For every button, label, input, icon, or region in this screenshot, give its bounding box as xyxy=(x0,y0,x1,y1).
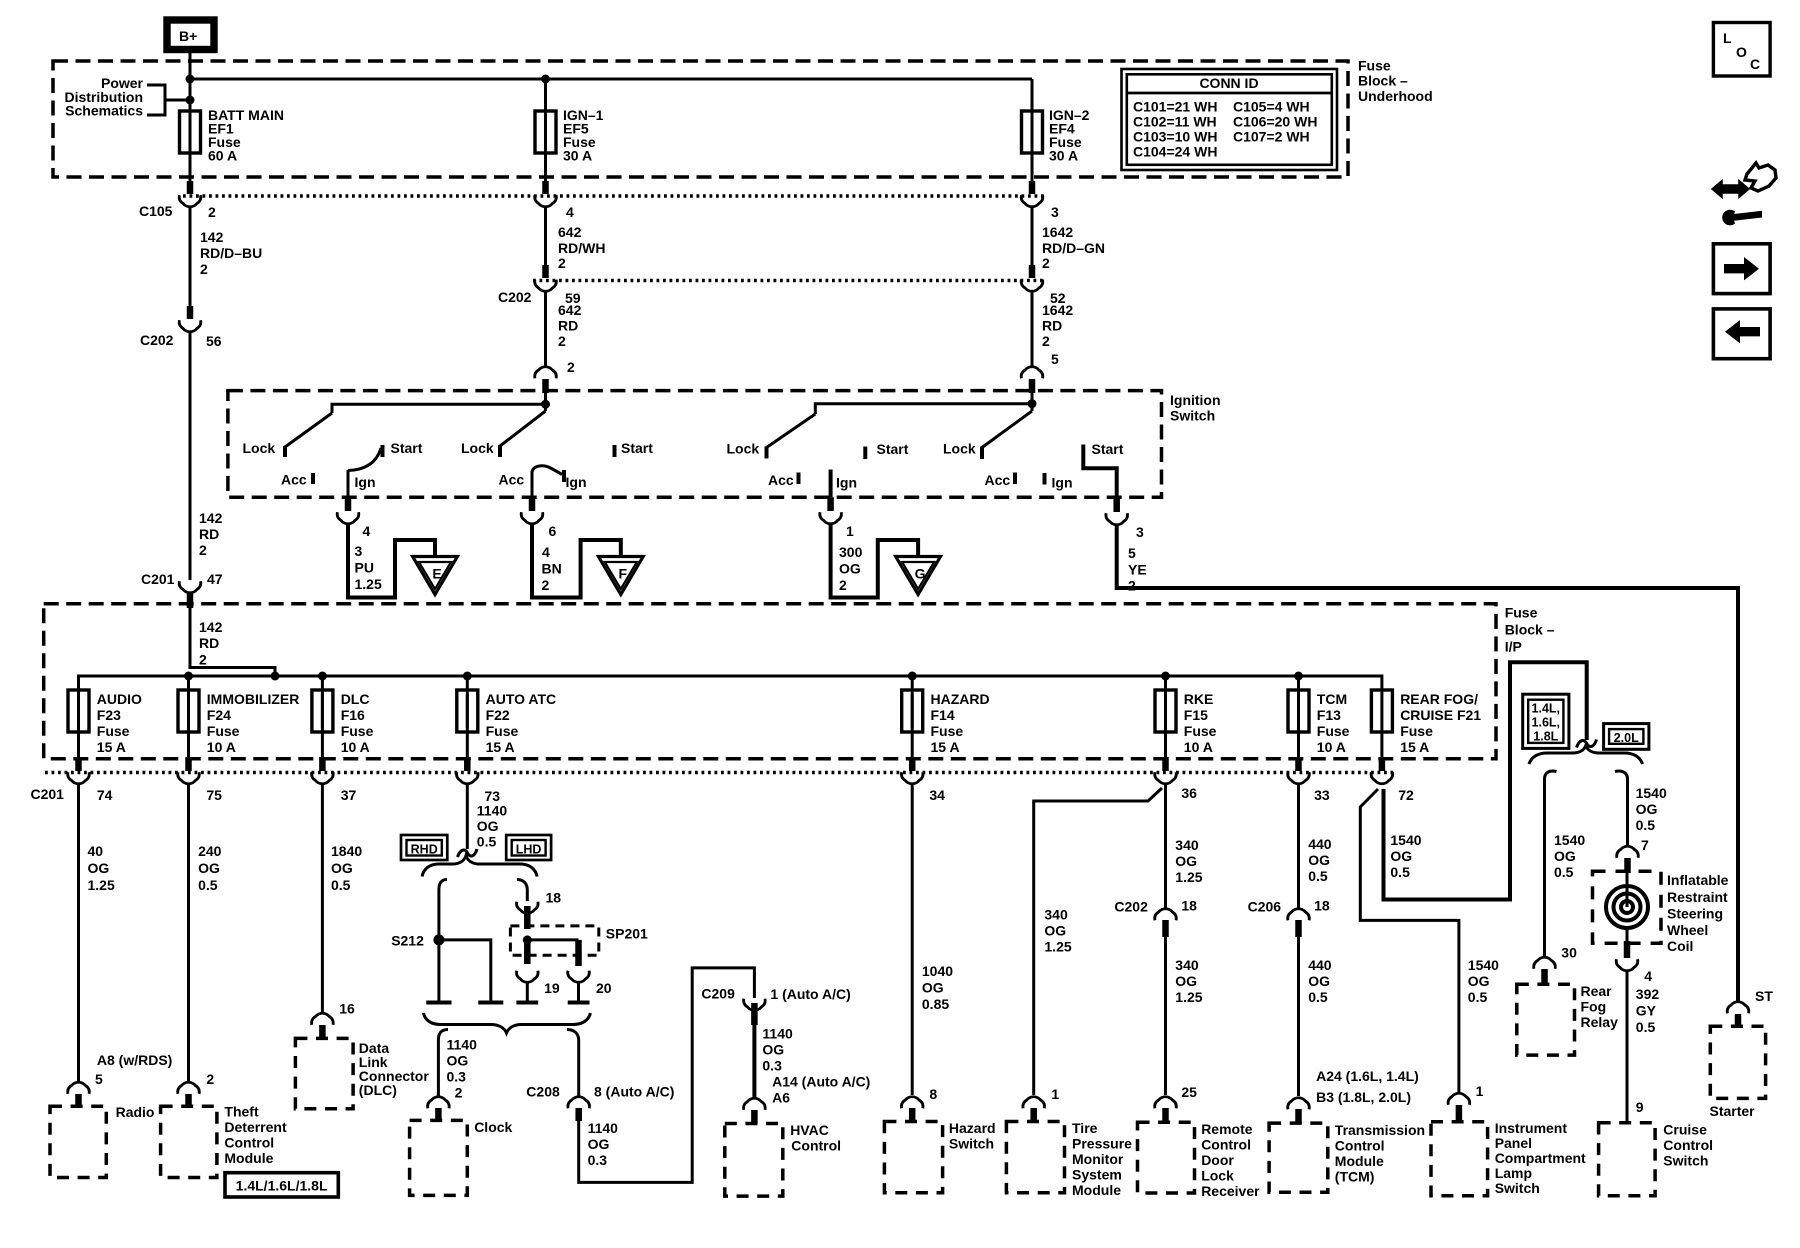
svg-text:0.5: 0.5 xyxy=(1636,1019,1656,1035)
wire ignition output section 1 xyxy=(347,470,350,497)
svg-text:Cruise: Cruise xyxy=(1663,1122,1707,1138)
connector C201 pin 75 xyxy=(178,772,222,803)
wire EF1 to C105 xyxy=(189,153,192,181)
svg-text:C202: C202 xyxy=(1114,899,1148,915)
svg-text:Fuse: Fuse xyxy=(1184,723,1217,739)
connector clock pin 2 xyxy=(428,1097,450,1109)
contact RHD wire end xyxy=(426,1001,451,1005)
fuse F16 DLC 10A xyxy=(312,676,374,755)
wire 142 RD/D-BU xyxy=(190,208,262,306)
svg-text:340: 340 xyxy=(1175,957,1199,973)
svg-text:F22: F22 xyxy=(486,707,510,723)
module Transmission Control Module TCM xyxy=(1269,1122,1425,1192)
contact 19 end xyxy=(516,1001,538,1005)
svg-text:F: F xyxy=(619,566,628,582)
ground G xyxy=(896,557,941,595)
svg-text:340: 340 xyxy=(1044,907,1068,923)
svg-text:Start: Start xyxy=(621,440,653,456)
svg-text:60 A: 60 A xyxy=(208,148,237,164)
wire coil branch hook xyxy=(1615,771,1628,779)
svg-text:1840: 1840 xyxy=(331,843,362,859)
svg-text:Tire: Tire xyxy=(1072,1120,1098,1136)
pin 73 xyxy=(464,757,471,771)
switch blade Lock section 1 xyxy=(285,413,332,447)
pin 36 xyxy=(1162,757,1169,771)
svg-text:C102=11 WH: C102=11 WH xyxy=(1133,114,1217,130)
svg-text:Switch: Switch xyxy=(1170,408,1215,424)
svg-text:Wheel: Wheel xyxy=(1667,922,1708,938)
svg-text:C107=2 WH: C107=2 WH xyxy=(1233,129,1310,145)
svg-text:4: 4 xyxy=(363,523,371,539)
contact Start section 4 xyxy=(1081,445,1085,459)
junction node section 4 feed xyxy=(1028,399,1037,408)
svg-text:A14 (Auto A/C): A14 (Auto A/C) xyxy=(772,1074,870,1090)
svg-text:C201: C201 xyxy=(141,571,175,587)
svg-text:1 (Auto A/C): 1 (Auto A/C) xyxy=(770,986,850,1002)
pin into IP fuse block xyxy=(187,593,194,608)
svg-text:2: 2 xyxy=(200,261,208,277)
svg-text:2: 2 xyxy=(542,577,550,593)
module HVAC Control xyxy=(725,1122,841,1196)
svg-text:3: 3 xyxy=(1051,204,1059,220)
wire label 340 OG 1.25 tire branch xyxy=(1044,907,1071,1103)
svg-text:0.5: 0.5 xyxy=(1636,817,1656,833)
svg-text:OG: OG xyxy=(331,860,353,876)
svg-text:Clock: Clock xyxy=(474,1119,512,1135)
wire 1140 OG 0.3 to HVAC xyxy=(754,1025,870,1106)
svg-text:CONN ID: CONN ID xyxy=(1199,75,1258,91)
svg-text:642: 642 xyxy=(558,224,582,240)
svg-text:Acc: Acc xyxy=(499,472,525,488)
wire EF4 down xyxy=(1031,153,1034,181)
pin into SP201 xyxy=(524,906,531,929)
svg-text:2: 2 xyxy=(208,204,216,220)
svg-text:Acc: Acc xyxy=(768,472,794,488)
svg-text:HVAC: HVAC xyxy=(790,1122,829,1138)
svg-text:74: 74 xyxy=(97,787,113,803)
pin into ignition switch xyxy=(542,379,549,393)
svg-text:C103=10 WH: C103=10 WH xyxy=(1133,129,1217,145)
contact Start section 2 xyxy=(613,445,617,457)
contact Acc I section 3 xyxy=(797,473,801,485)
pin at C202-59 xyxy=(542,265,549,278)
wire 1540 OG 0.5 to rear fog relay xyxy=(1545,778,1586,961)
svg-text:Block –: Block – xyxy=(1505,622,1555,638)
pin 72 xyxy=(1379,757,1386,771)
junction node F16 xyxy=(318,672,327,681)
svg-text:Ign: Ign xyxy=(355,474,376,490)
wire 1540 OG 0.5 to coil xyxy=(1628,778,1667,853)
wire 1040 OG 0.85 to hazard switch xyxy=(912,785,953,1102)
svg-text:2: 2 xyxy=(455,1085,463,1101)
svg-text:C202: C202 xyxy=(498,289,532,305)
connector C201 pin 74 xyxy=(68,772,113,803)
svg-text:RD: RD xyxy=(199,635,219,651)
module Tire Pressure Monitor System Module xyxy=(1006,1120,1132,1198)
contact Acc section 1 xyxy=(311,473,315,484)
pin into ignition switch xyxy=(1029,379,1036,393)
svg-text:33: 33 xyxy=(1314,787,1330,803)
svg-text:1540: 1540 xyxy=(1468,957,1499,973)
svg-text:1.25: 1.25 xyxy=(355,576,382,592)
svg-text:C105=4 WH: C105=4 WH xyxy=(1233,99,1310,115)
svg-text:RD/D–BU: RD/D–BU xyxy=(200,245,262,261)
svg-text:ST: ST xyxy=(1755,988,1773,1004)
svg-text:1.6L,: 1.6L, xyxy=(1532,716,1561,730)
svg-text:Transmission: Transmission xyxy=(1335,1122,1425,1138)
svg-text:0.5: 0.5 xyxy=(1390,864,1410,880)
junction node F14 xyxy=(908,672,917,681)
label Power Distribution Schematics xyxy=(64,75,143,119)
junction node at B+ bus xyxy=(186,75,195,84)
switch blade output to Ign section 2 xyxy=(532,466,562,475)
connector C201 pin 36 xyxy=(1155,772,1197,801)
module Starter xyxy=(1710,1026,1766,1119)
pin into TCM xyxy=(1295,1109,1302,1124)
svg-text:0.5: 0.5 xyxy=(331,877,351,893)
svg-text:1: 1 xyxy=(1051,1086,1059,1102)
module Rear Fog Relay xyxy=(1517,983,1618,1055)
svg-text:IMMOBILIZER: IMMOBILIZER xyxy=(207,691,300,707)
variant tag LHD xyxy=(506,835,551,860)
contact Ign section 2 xyxy=(562,470,566,482)
ground E xyxy=(413,557,458,595)
wire 1642 RD/D-GN xyxy=(1032,208,1105,271)
wire 4 BN 2 to ground F xyxy=(532,525,621,598)
svg-text:1540: 1540 xyxy=(1554,832,1585,848)
svg-text:Fuse: Fuse xyxy=(931,723,964,739)
connector row C201 dotted line xyxy=(45,771,1395,775)
wire break symbol variant xyxy=(1577,740,1597,748)
svg-text:2: 2 xyxy=(839,577,847,593)
svg-text:Control: Control xyxy=(791,1138,841,1154)
wire F13 to C201 xyxy=(1297,732,1300,757)
svg-text:F16: F16 xyxy=(341,707,365,723)
svg-text:Schematics: Schematics xyxy=(65,103,143,119)
svg-text:C202: C202 xyxy=(140,332,174,348)
module Remote Control Door Lock Receiver xyxy=(1138,1121,1261,1199)
svg-text:1540: 1540 xyxy=(1636,785,1667,801)
svg-text:10 A: 10 A xyxy=(1184,739,1213,755)
wire EF5 down xyxy=(544,153,547,181)
junction node F22 xyxy=(463,672,472,681)
connector remote receiver pin 25 xyxy=(1155,1097,1177,1109)
pin SP201 out right xyxy=(575,940,582,966)
pin 34 xyxy=(909,757,916,771)
connector C208 pin 8 xyxy=(526,1084,674,1109)
connector C201 pin 47 xyxy=(141,571,223,593)
wire 1540 OG 0.5 to lamp switch xyxy=(1360,789,1499,1099)
connector ignition switch pin 2 xyxy=(535,359,575,378)
svg-text:Restraint: Restraint xyxy=(1667,889,1728,905)
svg-text:HAZARD: HAZARD xyxy=(931,691,990,707)
svg-text:Control: Control xyxy=(224,1135,274,1151)
pin 4 male xyxy=(542,181,549,194)
splice pack SP201 xyxy=(510,926,648,956)
connector C105 pin 2 female xyxy=(139,195,216,220)
svg-text:LHD: LHD xyxy=(516,843,542,857)
pin into rear fog relay xyxy=(1541,969,1548,985)
svg-text:G: G xyxy=(915,566,926,582)
connector C202 pin 52 xyxy=(1021,280,1066,306)
wire Start contact to output section 4 xyxy=(1083,458,1116,497)
connector theft module pin 2 xyxy=(178,1082,200,1094)
svg-text:AUTO ATC: AUTO ATC xyxy=(486,691,557,707)
svg-text:Radio: Radio xyxy=(116,1104,155,1120)
wire B+ down to underhood bus xyxy=(189,53,192,111)
wire 1642 RD 2 xyxy=(1032,293,1073,367)
fuse F14 HAZARD 15A xyxy=(902,676,990,755)
svg-text:Start: Start xyxy=(1092,441,1124,457)
wire ignition output section 2 xyxy=(531,471,534,497)
fuse block underhood dashed box xyxy=(53,61,1348,177)
connector rear fog relay pin 30 xyxy=(1534,957,1556,969)
junction node F24 xyxy=(184,672,193,681)
svg-text:Lamp: Lamp xyxy=(1495,1165,1532,1181)
svg-text:Rear: Rear xyxy=(1581,983,1613,999)
svg-text:7: 7 xyxy=(1641,837,1649,853)
svg-text:1: 1 xyxy=(1476,1083,1484,1099)
connector C201 pin 73 xyxy=(457,772,501,804)
svg-text:1040: 1040 xyxy=(922,963,953,979)
svg-text:3: 3 xyxy=(355,543,363,559)
wire 1140 OG 0.5 xyxy=(467,785,507,850)
wire 340 OG 1.25 RKE xyxy=(1166,785,1203,909)
svg-text:Steering: Steering xyxy=(1667,906,1723,922)
connector hazard pin 8 xyxy=(901,1097,923,1109)
svg-text:20: 20 xyxy=(596,980,612,996)
svg-text:B3 (1.8L, 2.0L): B3 (1.8L, 2.0L) xyxy=(1316,1089,1411,1105)
svg-text:Ign: Ign xyxy=(566,474,587,490)
svg-text:OG: OG xyxy=(88,860,110,876)
svg-text:30: 30 xyxy=(1561,945,1577,961)
svg-text:1.25: 1.25 xyxy=(88,877,115,893)
svg-text:2: 2 xyxy=(558,333,566,349)
wire 440 OG 0.5 TCM upper xyxy=(1299,785,1332,909)
svg-text:8 (Auto A/C): 8 (Auto A/C) xyxy=(594,1084,674,1100)
connector C201 pin 33 xyxy=(1288,772,1330,803)
connector C202 pin 59 xyxy=(498,280,581,306)
connector pin 4 section 1 xyxy=(337,512,370,539)
fuse F23 AUDIO 15A xyxy=(68,690,142,755)
bracket from Power Distribution label to wire xyxy=(147,85,190,115)
fuse F13 TCM 10A xyxy=(1288,676,1350,755)
contact S212 branch end xyxy=(478,1001,503,1005)
svg-text:C209: C209 xyxy=(701,986,735,1002)
svg-text:Module: Module xyxy=(1072,1182,1121,1198)
pin into tire module xyxy=(1030,1108,1037,1122)
svg-text:2: 2 xyxy=(1128,578,1136,594)
icon arrow left box xyxy=(1713,309,1770,359)
svg-text:18: 18 xyxy=(1181,898,1197,914)
pin into radio xyxy=(75,1094,82,1107)
fuse EF4 IGN-2 30A xyxy=(1022,79,1090,164)
svg-text:OG: OG xyxy=(839,561,861,577)
svg-text:30 A: 30 A xyxy=(563,148,592,164)
svg-text:OG: OG xyxy=(198,860,220,876)
brace variant split xyxy=(422,856,537,877)
pin 75 xyxy=(185,757,192,771)
svg-text:1.25: 1.25 xyxy=(1175,989,1202,1005)
svg-text:1.25: 1.25 xyxy=(1175,869,1202,885)
svg-text:0.5: 0.5 xyxy=(1308,989,1328,1005)
pin 74 xyxy=(75,757,82,771)
wire C208 branch hook xyxy=(567,1030,579,1041)
wire 392 GY 0.5 to cruise switch xyxy=(1627,972,1659,1123)
wire 142 RD 2 inside IP block xyxy=(190,608,275,676)
label Fuse Block Underhood xyxy=(1358,58,1433,105)
connector IGN-1 pin 4 female xyxy=(535,195,574,220)
wire 3 PU 1.25 to ground E xyxy=(348,525,435,598)
brace variant merge xyxy=(424,1013,591,1033)
label Fuse Block IP xyxy=(1505,605,1555,655)
fuse block IP dashed box xyxy=(44,604,1496,759)
switch blade Lock section 4 xyxy=(982,411,1032,448)
svg-text:Hazard: Hazard xyxy=(949,1120,996,1136)
svg-text:Switch: Switch xyxy=(1495,1180,1540,1196)
contact Lock section 3 xyxy=(765,447,769,459)
pin ignition output 4 section 1 xyxy=(345,497,352,511)
svg-text:BN: BN xyxy=(542,561,562,577)
svg-text:L: L xyxy=(1723,30,1732,46)
svg-text:0.5: 0.5 xyxy=(1554,864,1574,880)
svg-text:142: 142 xyxy=(200,229,224,245)
svg-text:Pressure: Pressure xyxy=(1072,1136,1132,1152)
variant tag 2.0L xyxy=(1604,724,1649,750)
switch blade Start to output section 1 xyxy=(348,448,381,471)
svg-text:10 A: 10 A xyxy=(1317,739,1346,755)
svg-text:Fuse: Fuse xyxy=(97,723,130,739)
svg-text:0.5: 0.5 xyxy=(477,834,497,850)
pin ignition output 6 section 2 xyxy=(529,497,536,511)
svg-text:SP201: SP201 xyxy=(606,926,648,942)
svg-text:OG: OG xyxy=(477,818,499,834)
svg-text:1140: 1140 xyxy=(447,1037,478,1053)
wire 300 OG 2 to ground G xyxy=(831,525,919,598)
connector row C202 dotted line xyxy=(533,279,1046,283)
svg-text:Lock: Lock xyxy=(461,440,494,456)
svg-text:34: 34 xyxy=(929,787,945,803)
wire F24 to C201 xyxy=(187,732,190,757)
svg-text:A24 (1.6L, 1.4L): A24 (1.6L, 1.4L) xyxy=(1316,1068,1419,1084)
svg-text:15 A: 15 A xyxy=(97,739,126,755)
svg-text:Lock: Lock xyxy=(943,441,976,457)
svg-text:Block –: Block – xyxy=(1358,73,1408,89)
svg-text:Starter: Starter xyxy=(1710,1103,1756,1119)
svg-text:RD/WH: RD/WH xyxy=(558,240,605,256)
svg-text:8: 8 xyxy=(929,1086,937,1102)
svg-text:F24: F24 xyxy=(207,707,231,723)
svg-text:72: 72 xyxy=(1398,787,1414,803)
pin ignition output 3 section 4 xyxy=(1113,497,1120,512)
wire clock branch hook xyxy=(438,1030,448,1041)
wire F22 to C201 xyxy=(466,732,469,757)
pin C209 xyxy=(751,1003,758,1025)
svg-text:C101=21 WH: C101=21 WH xyxy=(1133,99,1217,115)
wire F23 to C201 xyxy=(77,732,80,757)
wire LHD branch hook xyxy=(517,880,527,891)
svg-text:15 A: 15 A xyxy=(931,739,960,755)
icon view-direction arrow with wrench xyxy=(1712,163,1776,225)
contact Start section 3 xyxy=(863,447,867,460)
variant tag 1.4L 1.6L 1.8L xyxy=(1523,694,1569,748)
switch blade Lock section 3 xyxy=(767,414,816,448)
fuse F22 AUTO ATC 15A xyxy=(457,676,556,755)
pin 2 male at C105 xyxy=(187,181,194,194)
svg-text:RKE: RKE xyxy=(1184,691,1214,707)
contact Start section 1 xyxy=(381,445,385,457)
svg-text:Switch: Switch xyxy=(1663,1153,1708,1169)
svg-text:440: 440 xyxy=(1308,957,1332,973)
svg-text:OG: OG xyxy=(1636,801,1658,817)
pin 3 male xyxy=(1029,181,1036,194)
fuse EF1 BATT MAIN 60A xyxy=(180,107,284,164)
pin into lamp switch xyxy=(1456,1105,1463,1122)
svg-text:F15: F15 xyxy=(1184,707,1208,723)
wire 642 RD/WH xyxy=(546,208,606,271)
svg-text:1.8L: 1.8L xyxy=(1533,730,1558,744)
connector lamp switch pin 1 xyxy=(1448,1093,1470,1105)
svg-text:10 A: 10 A xyxy=(341,739,370,755)
svg-text:Module: Module xyxy=(1335,1153,1384,1169)
svg-text:(TCM): (TCM) xyxy=(1335,1169,1375,1185)
fuse F15 RKE 10A xyxy=(1155,676,1217,755)
wire ignition feed section 3-4 xyxy=(815,393,1032,414)
module Clock xyxy=(410,1119,513,1195)
wire below 19 xyxy=(526,982,529,1001)
svg-text:15 A: 15 A xyxy=(486,739,515,755)
connector tire module pin 1 xyxy=(1023,1097,1045,1109)
svg-text:1642: 1642 xyxy=(1042,302,1073,318)
switch blade Lock section 2 xyxy=(500,411,546,446)
svg-text:16: 16 xyxy=(339,1001,355,1017)
svg-text:DLC: DLC xyxy=(341,691,370,707)
svg-text:340: 340 xyxy=(1175,837,1199,853)
svg-text:Acc: Acc xyxy=(281,472,307,488)
svg-text:C: C xyxy=(1750,56,1760,72)
svg-text:1.25: 1.25 xyxy=(1044,939,1071,955)
variant tag RHD xyxy=(401,835,447,860)
svg-text:1.4L/1.6L/1.8L: 1.4L/1.6L/1.8L xyxy=(236,1178,328,1194)
pin into starter xyxy=(1735,1014,1742,1027)
svg-text:Panel: Panel xyxy=(1495,1135,1532,1151)
pin into coil xyxy=(1624,858,1631,873)
connector pin 3 section 4 xyxy=(1106,513,1144,540)
svg-text:18: 18 xyxy=(1314,898,1330,914)
splice S212 xyxy=(391,933,444,949)
svg-text:1: 1 xyxy=(846,523,854,539)
module Cruise Control Switch xyxy=(1599,1122,1713,1196)
svg-text:0.3: 0.3 xyxy=(762,1057,782,1073)
svg-text:Lock: Lock xyxy=(243,440,276,456)
junction node IGN-1 tap xyxy=(541,75,550,84)
LOC legend box xyxy=(1713,23,1770,77)
connector pin 1 section 3 xyxy=(820,512,854,539)
svg-text:2: 2 xyxy=(1042,333,1050,349)
connector DLC pin 16 xyxy=(312,1013,334,1025)
svg-text:Monitor: Monitor xyxy=(1072,1151,1124,1167)
svg-text:Underhood: Underhood xyxy=(1358,88,1433,104)
module Theft Deterrent Control Module xyxy=(161,1104,287,1178)
svg-text:REAR FOG/: REAR FOG/ xyxy=(1400,691,1478,707)
svg-text:C208: C208 xyxy=(526,1084,560,1100)
wire below 20 xyxy=(577,982,580,1001)
wire F15 to C201 xyxy=(1164,732,1167,757)
connector ST xyxy=(1727,988,1773,1013)
svg-text:Door: Door xyxy=(1201,1152,1234,1168)
connector pin 20 xyxy=(568,971,612,996)
svg-text:19: 19 xyxy=(544,980,560,996)
